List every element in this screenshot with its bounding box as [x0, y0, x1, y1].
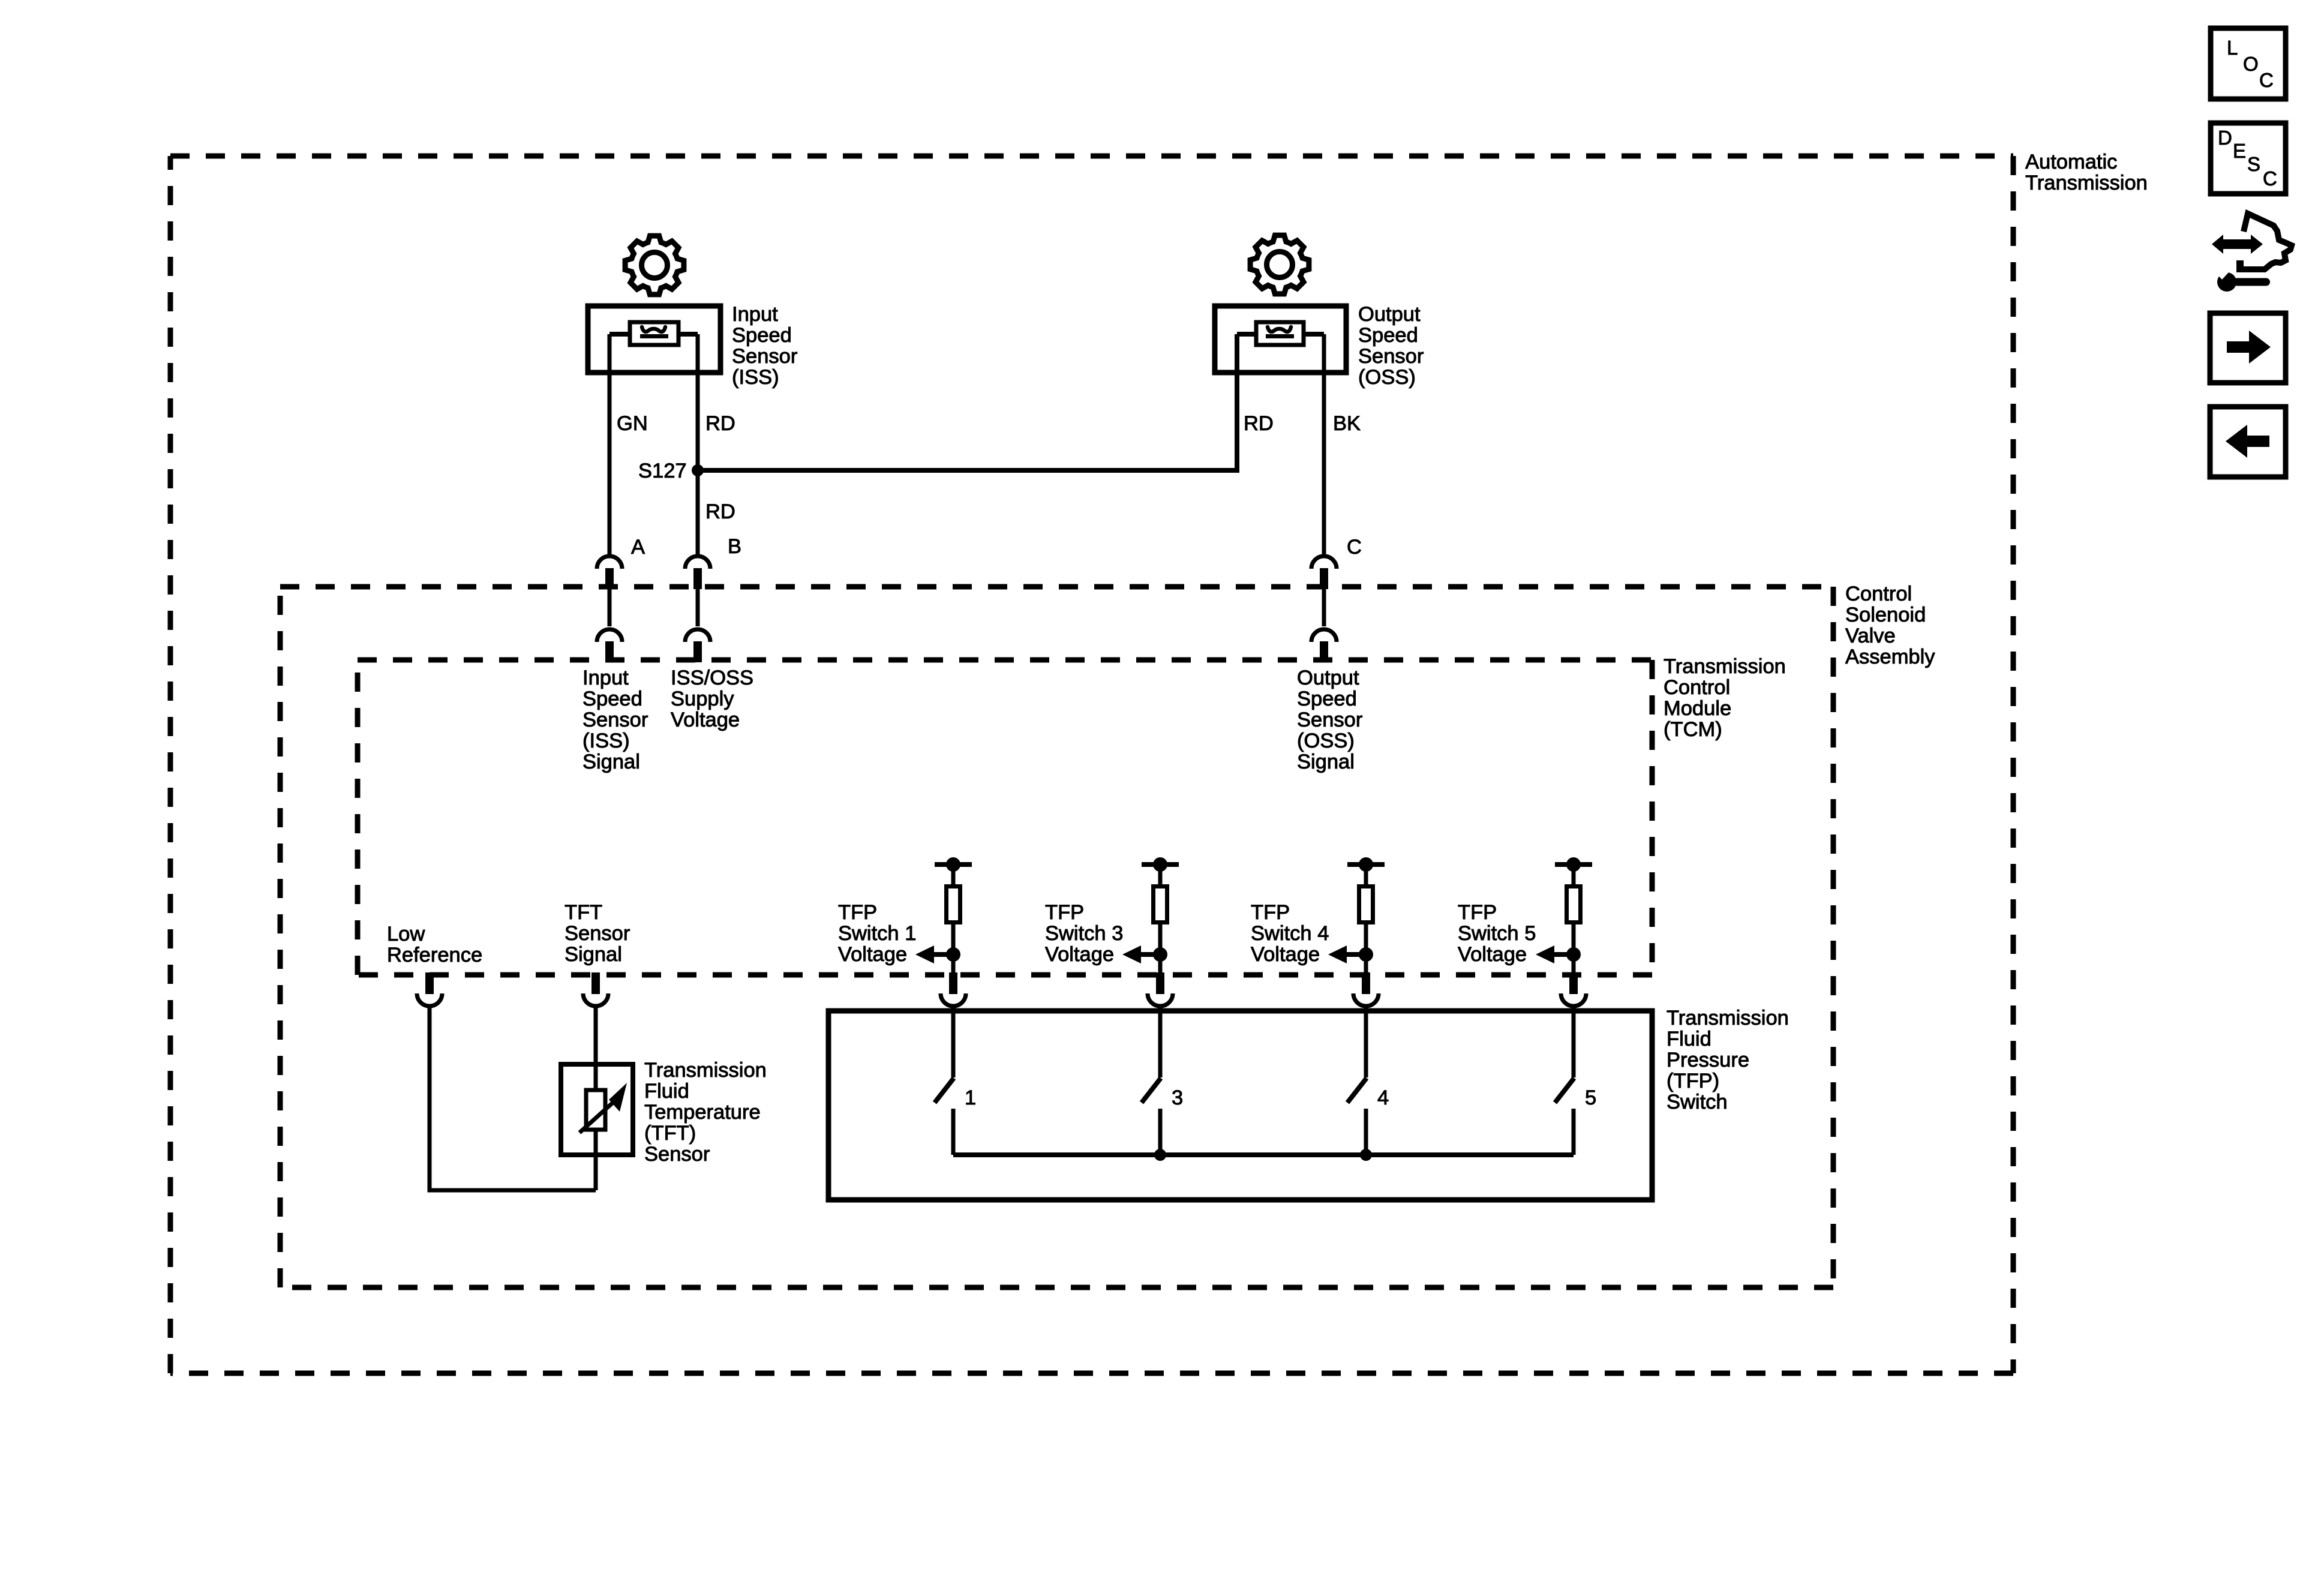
label: Transmission Control Module (TCM)	[1664, 655, 1786, 741]
connector TFP switch 3 at TCM bottom	[1148, 972, 1173, 1006]
svg-text:GN: GN	[617, 412, 648, 435]
label BK	[1333, 412, 1361, 435]
wire into TFP switch 1	[951, 1006, 956, 1077]
TFP switch 3 pull-up (tick, resistor)	[1142, 857, 1179, 973]
svg-text:C: C	[2259, 69, 2274, 91]
svg-text:B: B	[728, 535, 741, 558]
svg-text:5: 5	[1585, 1086, 1596, 1109]
label: TFP Switch 1 Voltage	[838, 901, 916, 966]
switch 1 blade	[935, 1078, 954, 1155]
icon DESC	[2211, 123, 2286, 194]
TFP switch 5 pull-up (tick, resistor)	[1555, 857, 1592, 973]
svg-text:TFPSwitch 4Voltage: TFPSwitch 4Voltage	[1251, 901, 1329, 966]
icon arrow right	[2210, 313, 2286, 383]
label RD (upper)	[705, 412, 735, 435]
connector TFP switch 4 at TCM bottom	[1353, 972, 1379, 1006]
label: Output Speed Sensor (OSS)	[1358, 303, 1424, 389]
svg-text:C: C	[1347, 536, 1362, 559]
connector Low Reference at TCM bottom	[417, 972, 442, 1006]
TFP switch 1 voltage arrow	[915, 945, 960, 963]
icon transmission service (arrow + outline + wrench)	[2212, 214, 2292, 292]
icon arrow left	[2210, 407, 2286, 477]
wire into TFP switch 5	[1572, 1006, 1576, 1077]
label: Output Speed Sensor (OSS) Signal	[1297, 667, 1362, 773]
label: Transmission Fluid Temperature (TFT) Sensor	[644, 1059, 767, 1166]
svg-text:L: L	[2227, 37, 2238, 59]
TFT sensor box	[561, 1064, 633, 1155]
label switch number 3	[1172, 1086, 1183, 1109]
wire GN (ISS pin A)	[608, 334, 612, 554]
OSS sensor element	[1237, 322, 1324, 345]
svg-text:BK: BK	[1333, 412, 1361, 435]
label B	[728, 535, 741, 558]
svg-text:ISS/OSSSupplyVoltage: ISS/OSSSupplyVoltage	[671, 667, 753, 731]
ISS sensor element	[609, 322, 698, 345]
splice S127	[692, 464, 704, 476]
label RD (OSS side)	[1244, 412, 1274, 435]
svg-text:ControlSolenoidValveAssembly: ControlSolenoidValveAssembly	[1845, 583, 1935, 668]
svg-text:TFPSwitch 1Voltage: TFPSwitch 1Voltage	[838, 901, 916, 966]
svg-text:RD: RD	[1244, 412, 1274, 435]
TFP switch 4 voltage arrow	[1328, 945, 1373, 963]
gear icon (ISS)	[625, 236, 684, 295]
svg-text:C: C	[2263, 167, 2277, 190]
junction dot switch 3	[1154, 1149, 1166, 1161]
label switch number 5	[1585, 1086, 1596, 1109]
connector TFP switch 5 at TCM bottom	[1561, 972, 1586, 1006]
svg-text:AutomaticTransmission: AutomaticTransmission	[2025, 151, 2148, 194]
svg-text:A: A	[631, 536, 645, 559]
svg-text:S: S	[2247, 153, 2260, 175]
dashed box: Transmission Control Module (TCM)	[358, 660, 1652, 975]
svg-text:E: E	[2233, 140, 2246, 162]
switch 3 blade	[1142, 1078, 1161, 1155]
label RD (lower)	[705, 500, 735, 523]
label: Low Reference	[387, 923, 482, 966]
svg-text:1: 1	[965, 1086, 976, 1109]
TFP switch 1 pull-up (tick, resistor)	[935, 857, 972, 973]
wire RD (below S127)	[696, 470, 700, 554]
wire RD (ISS pin B upper)	[696, 334, 700, 470]
svg-text:OutputSpeedSensor(OSS): OutputSpeedSensor(OSS)	[1358, 303, 1424, 389]
svg-text:InputSpeedSensor(ISS)Signal: InputSpeedSensor(ISS)Signal	[582, 667, 648, 773]
junction dot switch 4	[1360, 1149, 1372, 1161]
outer dashed box: Automatic Transmission	[170, 156, 2013, 1373]
switch 5 blade	[1555, 1078, 1574, 1155]
wire into TFP switch 3	[1158, 1006, 1163, 1077]
svg-text:TransmissionFluidTemperature(T: TransmissionFluidTemperature(TFT)Sensor	[644, 1059, 767, 1166]
svg-text:InputSpeedSensor(ISS): InputSpeedSensor(ISS)	[732, 303, 797, 389]
svg-text:LowReference: LowReference	[387, 923, 482, 966]
svg-text:TransmissionControlModule(TCM): TransmissionControlModule(TCM)	[1664, 655, 1786, 741]
wire low reference	[430, 1006, 596, 1190]
svg-text:TFTSensorSignal: TFTSensorSignal	[565, 901, 630, 966]
label: Automatic Transmission	[2025, 151, 2148, 194]
connector C at solenoid-assembly boundary	[1311, 556, 1337, 589]
label: TFP Switch 3 Voltage	[1045, 901, 1123, 966]
svg-text:RD: RD	[705, 412, 735, 435]
connector A at solenoid-assembly boundary	[597, 556, 622, 589]
svg-text:S127: S127	[638, 460, 687, 482]
label A	[631, 536, 645, 559]
label: Control Solenoid Valve Assembly	[1845, 583, 1935, 668]
svg-text:OutputSpeedSensor(OSS)Signal: OutputSpeedSensor(OSS)Signal	[1297, 667, 1362, 773]
ISS connector box	[588, 306, 720, 373]
label: Input Speed Sensor (ISS) Signal	[582, 667, 648, 773]
label: Transmission Fluid Pressure (TFP) Switch	[1667, 1007, 1789, 1113]
svg-text:TFPSwitch 3Voltage: TFPSwitch 3Voltage	[1045, 901, 1123, 966]
wire into TFP switch 4	[1364, 1006, 1368, 1077]
wire BK (OSS pin C)	[1322, 334, 1326, 554]
svg-text:TransmissionFluidPressure(TFP): TransmissionFluidPressure(TFP)Switch	[1667, 1007, 1789, 1113]
wire TFT signal	[594, 1006, 598, 1190]
TFP switch 5 voltage arrow	[1536, 945, 1581, 963]
svg-text:4: 4	[1377, 1086, 1389, 1109]
label switch number 4	[1377, 1086, 1389, 1109]
label: TFP Switch 5 Voltage	[1458, 901, 1536, 966]
wire + connector A at TCM	[597, 589, 622, 662]
svg-text:3: 3	[1172, 1086, 1183, 1109]
switch 4 blade	[1347, 1078, 1367, 1155]
wire + connector B at TCM	[685, 589, 710, 662]
label: Input Speed Sensor (ISS)	[732, 303, 797, 389]
wire RD jumper S127 to OSS supply	[698, 334, 1237, 470]
OSS connector box	[1215, 306, 1346, 373]
bus wire joining switches	[953, 1152, 1574, 1157]
label GN	[617, 412, 648, 435]
svg-text:TFPSwitch 5Voltage: TFPSwitch 5Voltage	[1458, 901, 1536, 966]
wire + connector C at TCM	[1311, 589, 1337, 662]
svg-text:RD: RD	[705, 500, 735, 523]
TFP switch 4 pull-up (tick, resistor)	[1347, 857, 1385, 973]
label: TFP Switch 4 Voltage	[1251, 901, 1329, 966]
label S127	[638, 460, 687, 482]
connector TFT Sensor Signal at TCM bottom	[583, 972, 608, 1006]
svg-text:D: D	[2218, 127, 2232, 149]
connector TFP switch 1 at TCM bottom	[941, 972, 966, 1006]
icon LOC	[2211, 28, 2286, 99]
label: ISS/OSS Supply Voltage	[671, 667, 753, 731]
TFP switch 3 voltage arrow	[1122, 945, 1167, 963]
label: TFT Sensor Signal	[565, 901, 630, 966]
label C	[1347, 536, 1362, 559]
solid box: Transmission Fluid Pressure (TFP) Switch	[828, 1011, 1652, 1200]
connector B at solenoid-assembly boundary	[685, 556, 710, 589]
dashed box: Control Solenoid Valve Assembly	[280, 587, 1833, 1287]
svg-text:O: O	[2243, 53, 2259, 75]
gear icon (OSS)	[1250, 235, 1309, 294]
TFT thermistor	[580, 1083, 627, 1133]
label switch number 1	[965, 1086, 976, 1109]
